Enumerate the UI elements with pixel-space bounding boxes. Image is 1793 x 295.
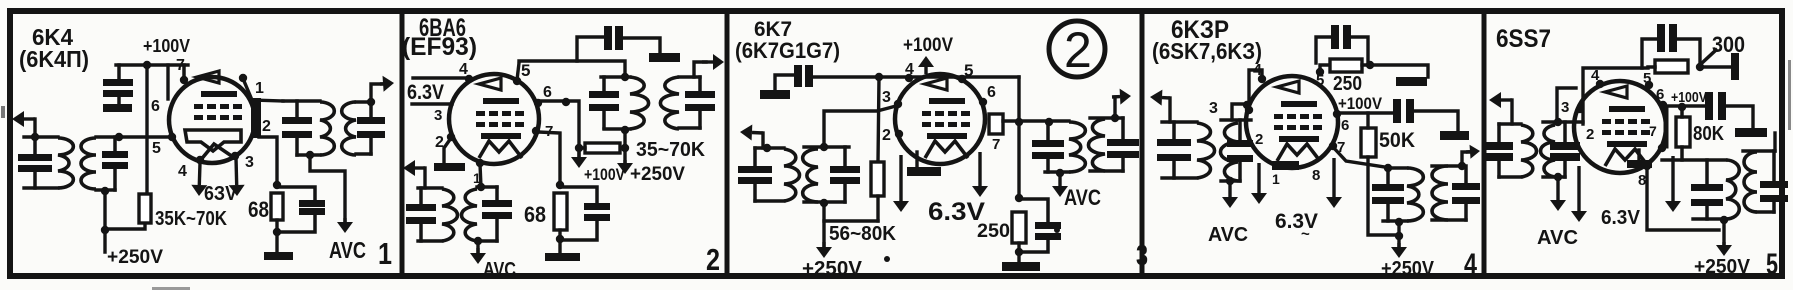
- inductor output primary L17 S5: [1726, 160, 1739, 219]
- svg-text:6ЗV: 6ЗV: [204, 183, 238, 205]
- svg-text:AVC: AVC: [1064, 185, 1101, 210]
- wire C21 stems S4: [1464, 166, 1468, 184]
- wire C28 stems S5: [1497, 124, 1501, 143]
- inductor input secondary L20 S5: [1541, 125, 1555, 177]
- divider panel 1|2: [400, 11, 405, 276]
- wire grid LC top S5: [1543, 120, 1583, 123]
- wire R7 to ground S4: [1362, 65, 1428, 77]
- capacitor output primary C7 S2: [589, 91, 619, 98]
- node bias top S2: [556, 181, 564, 189]
- capacitor input primary C1a S1: [18, 154, 52, 161]
- wire left LC top S1: [24, 135, 58, 138]
- capacitor output secondary C17 S3: [1107, 139, 1139, 146]
- pin 2 plate box S1: [251, 98, 261, 138]
- pin 7 dot S4: [1329, 142, 1337, 150]
- inductor output primary L13 S4: [1407, 168, 1423, 221]
- capacitor grid coupling C12 S3: [794, 65, 802, 87]
- svg-text:50K: 50K: [1379, 129, 1415, 152]
- cathode stem S3: [915, 152, 918, 167]
- svg-text:8: 8: [1638, 172, 1646, 189]
- capacitor input secondary C10 S2: [482, 200, 512, 207]
- pin 4 dot S2: [465, 75, 473, 83]
- capacitor cathode bypass C11 S2: [584, 203, 610, 210]
- node grid LC top S3: [820, 143, 828, 151]
- svg-text:+100V: +100V: [1671, 89, 1707, 106]
- pin 3 dot S5: [1576, 105, 1584, 113]
- svg-text:7: 7: [1649, 123, 1657, 139]
- svg-text:2: 2: [262, 118, 271, 135]
- svg-text:AVC: AVC: [1537, 227, 1578, 249]
- pin 5 dot S2: [513, 77, 521, 85]
- svg-text:(6K7G1G7): (6K7G1G7): [735, 38, 840, 63]
- arrow +250V S3: [822, 242, 825, 247]
- node plate-LC junction S2: [621, 73, 629, 81]
- capacitor input primary C14 S3: [738, 166, 772, 173]
- svg-text:6.3V: 6.3V: [1275, 210, 1318, 233]
- pin 5 dot S5: [1645, 81, 1653, 89]
- wire secondary top S5: [1743, 149, 1775, 152]
- wire C12 to ground S3: [775, 75, 794, 90]
- wire grid LC bottom S2: [477, 239, 497, 242]
- arrow AVC S3: [1058, 174, 1061, 186]
- svg-text:6: 6: [1341, 117, 1349, 134]
- wire C26 stems S5: [1705, 160, 1709, 185]
- svg-text:4: 4: [1464, 248, 1477, 281]
- wire R5 bottom lead S3: [876, 196, 879, 221]
- node pin3 area S4: [1245, 106, 1253, 114]
- arrow AVC S2: [476, 248, 479, 253]
- wire screen rail S3: [812, 75, 1019, 78]
- wire pin6 drop S1: [166, 65, 169, 99]
- inductor input primary L19 S5: [1521, 125, 1537, 177]
- capacitor plate top C24 S5: [1657, 24, 1665, 52]
- divider panel 2|3: [725, 11, 730, 276]
- svg-text:AVC: AVC: [483, 259, 516, 281]
- pin 1 dot S2: [476, 159, 484, 167]
- wire C4 stems S1: [369, 102, 373, 117]
- ground bar under C2 S1: [103, 104, 132, 112]
- svg-text:4: 4: [178, 163, 187, 180]
- node plate-LC junction S3: [1045, 118, 1053, 126]
- wire grid line to pin5 S1: [96, 135, 172, 138]
- heater arrow left S4: [1257, 163, 1260, 193]
- wire to terminal bar S5: [1700, 65, 1731, 68]
- wire secondary riser S5: [1773, 133, 1776, 151]
- wire secondary top S3: [1090, 116, 1123, 119]
- node +250V junction S1: [101, 226, 109, 234]
- svg-text:3: 3: [1136, 240, 1148, 272]
- tube V3 6K7 envelope and electrodes: [895, 74, 985, 164]
- node grid LC top S5: [1554, 118, 1562, 126]
- wire R3 left lead S2: [579, 146, 585, 150]
- svg-text:3: 3: [1209, 100, 1218, 117]
- resistor R10 80K S5: [1676, 117, 1690, 147]
- arrow +250V S4: [1397, 243, 1400, 247]
- wire bypass branch S1: [277, 187, 315, 200]
- wire R8 bottom drop S4: [1368, 157, 1399, 235]
- wire C27 stems S5: [1772, 151, 1776, 182]
- wire input LC bottom S4: [1162, 176, 1197, 179]
- node +100V junction S1: [143, 61, 151, 69]
- pin 7 dot S1: [180, 76, 188, 84]
- capacitor coupling C19 S4: [1393, 99, 1401, 123]
- wire C15 stems S3: [843, 147, 847, 166]
- ground bar bias S2: [545, 253, 580, 261]
- arrow +100V S3: [924, 67, 927, 74]
- wire secondary bottom S2: [679, 126, 700, 129]
- inductor output primary L3 S1: [320, 102, 334, 155]
- wire secondary top S1: [356, 100, 371, 103]
- svg-text:300: 300: [1712, 32, 1745, 57]
- capacitor output primary C20 S4: [1372, 184, 1404, 191]
- speck right edge: [1788, 60, 1791, 130]
- resistor R4 68 S2: [554, 193, 567, 230]
- resistor R6 250 S3: [1012, 212, 1026, 243]
- svg-text:7: 7: [176, 57, 185, 74]
- svg-text:56~80K: 56~80K: [829, 223, 897, 245]
- svg-text:5: 5: [152, 140, 161, 157]
- node AVC tap S3: [1056, 169, 1064, 177]
- pin 1 dot S1: [239, 74, 247, 82]
- wire input LC top S2: [418, 186, 442, 189]
- svg-text:1: 1: [378, 236, 392, 271]
- svg-text:5: 5: [1316, 72, 1324, 89]
- antenna arrow S5: [1501, 98, 1512, 101]
- wire C7 stems S2: [602, 77, 606, 92]
- antenna arrow S4: [1162, 96, 1170, 100]
- node screen rail tap S3: [875, 73, 883, 81]
- arrow AVC S5: [1556, 178, 1559, 200]
- svg-text:4: 4: [459, 61, 468, 78]
- node screen wire S2: [562, 98, 570, 106]
- node R9 right S5: [1696, 63, 1704, 71]
- svg-text:35~70K: 35~70K: [636, 139, 706, 161]
- pin 7 dot S2: [532, 127, 540, 135]
- heater arrow right S4: [1332, 158, 1335, 197]
- svg-text:+100V: +100V: [903, 35, 953, 56]
- ground bar C25 S5: [1735, 128, 1767, 137]
- wire input LC bottom S2: [418, 239, 442, 242]
- pin 5 lead S2: [517, 63, 519, 80]
- wire AVC feed S1: [310, 155, 345, 222]
- pin 3 dot S3: [894, 100, 902, 108]
- divider panel 3|4: [1140, 11, 1145, 276]
- wire to next stage arrow S2: [694, 62, 706, 77]
- wire input LC top S4: [1162, 120, 1197, 123]
- wire output LC top S4: [1388, 166, 1407, 169]
- pin 6 dot S4: [1333, 110, 1341, 118]
- capacitor output secondary C4 S1: [357, 117, 385, 124]
- inductor output secondary L4 S1: [342, 102, 356, 155]
- wire C1a stems S1: [33, 137, 37, 155]
- pin 4 dot S3: [905, 74, 913, 82]
- node grid cap tap S1: [115, 133, 123, 141]
- wire cathode to bias network S1: [259, 137, 277, 185]
- capacitor output primary C3 S1: [282, 117, 312, 124]
- arrow AVC S4: [1228, 182, 1231, 197]
- wire +100V rail S1: [116, 63, 188, 66]
- wire secondary top S2: [679, 75, 700, 78]
- ground bar cathode S3: [907, 167, 941, 176]
- speck mark left edge: [1, 106, 5, 118]
- svg-text:+100V: +100V: [1338, 94, 1383, 113]
- svg-text:6.3V: 6.3V: [1601, 207, 1641, 229]
- svg-text:8: 8: [1312, 167, 1320, 184]
- capacitor input secondary C23 S4: [1227, 140, 1253, 147]
- inductor output secondary L14 S4: [1432, 166, 1448, 220]
- wire C18 left lead S4: [1316, 37, 1331, 63]
- wire C24 right lead S5: [1677, 39, 1700, 62]
- inductor input primary L1 S1: [58, 138, 73, 188]
- svg-text:68: 68: [248, 197, 269, 222]
- wire pin7 lead S5: [1664, 107, 1669, 146]
- svg-text:250: 250: [1333, 73, 1362, 95]
- node +250V tap S1: [101, 187, 109, 195]
- pin 6 dot S3: [979, 98, 987, 106]
- wire R8 top lead S4: [1366, 113, 1369, 128]
- wire top cap branch S2: [577, 37, 603, 61]
- figure number circle 2: [1049, 21, 1105, 77]
- wire C6 to ground S2: [621, 38, 660, 53]
- svg-text:+100V: +100V: [584, 165, 626, 184]
- node plate return S4: [1395, 232, 1403, 240]
- wire left LC bottom S1: [24, 186, 58, 189]
- svg-text:1: 1: [1272, 171, 1280, 187]
- svg-text:68: 68: [524, 202, 546, 227]
- svg-text:6: 6: [151, 98, 160, 115]
- wire screen resistor drop S3: [878, 77, 879, 162]
- svg-text:(EF93): (EF93): [402, 33, 477, 61]
- node crossing dot S3: [1015, 118, 1023, 126]
- wire aux jog S5: [1557, 88, 1576, 124]
- node input top S3: [763, 144, 771, 152]
- pin 4 dot S1: [196, 156, 204, 164]
- node +250V tap S3: [820, 199, 828, 207]
- speck mark S3b: [1054, 227, 1060, 233]
- svg-text:(6K4П): (6K4П): [19, 46, 89, 72]
- capacitor coupling C25 S5: [1705, 92, 1713, 120]
- resistor R3 35-70K S2: [585, 143, 620, 153]
- pin 2 dot S2: [447, 133, 455, 141]
- capacitor input primary C22 S4: [1157, 139, 1191, 146]
- wire bias to ground S1: [275, 220, 278, 252]
- svg-text:3: 3: [434, 107, 442, 124]
- node AVC tap S2: [474, 237, 482, 245]
- divider panel 4|5: [1482, 11, 1487, 276]
- wire output LC bottom S3: [1045, 170, 1069, 173]
- wire C20 stems S4: [1386, 168, 1390, 185]
- svg-text:~: ~: [1301, 226, 1310, 243]
- pin 5 dot S3: [958, 75, 966, 83]
- resistor R2 68 S1: [271, 193, 283, 220]
- svg-text:+250V: +250V: [630, 164, 685, 185]
- node 250 bottom S3: [1015, 248, 1023, 256]
- capacitor input primary C9 S2: [406, 204, 436, 211]
- wire +250V drop S5: [1722, 220, 1725, 246]
- capacitor output primary C16 S3: [1032, 140, 1064, 147]
- wire output LC bottom S4: [1383, 219, 1407, 222]
- heater arrow right S5: [1671, 156, 1674, 201]
- inductor output secondary L6 S2: [660, 77, 679, 129]
- wire grid LC top S3: [804, 145, 849, 148]
- capacitor output secondary C21 S4: [1452, 183, 1480, 190]
- node AVC takeoff S1: [306, 151, 314, 159]
- pin 7 dot S5: [1658, 144, 1666, 152]
- inductor input primary L15 S4: [1197, 123, 1215, 178]
- wire R10 leads S5: [1680, 107, 1684, 117]
- svg-text:6: 6: [1656, 86, 1664, 103]
- wire to next stage with arrow S1: [371, 84, 385, 102]
- inductor output primary L11 S3: [1069, 122, 1085, 172]
- svg-text:3: 3: [882, 89, 891, 106]
- wire plate to LC S4: [1333, 147, 1385, 167]
- ground bar C6 S2: [649, 53, 680, 62]
- ground bar pin2 S2: [434, 163, 465, 171]
- wire secondary bottom S5: [1757, 210, 1774, 213]
- wire pin5 rail S4: [1320, 65, 1330, 70]
- wire plate to output transformer S1: [244, 81, 283, 101]
- svg-text:5: 5: [521, 61, 530, 80]
- svg-text:2: 2: [1255, 131, 1263, 148]
- svg-text:7: 7: [992, 136, 1000, 153]
- svg-text:4: 4: [1253, 62, 1262, 79]
- node bias bottom S2: [556, 235, 564, 243]
- svg-text:+250V: +250V: [1381, 258, 1435, 280]
- wire C8 stems S2: [698, 77, 702, 92]
- capacitor screen top C18 S4: [1331, 25, 1339, 49]
- ground bar bias S1: [264, 252, 293, 260]
- antenna arrow S2: [415, 166, 425, 169]
- wire grid LC top S2: [477, 185, 497, 188]
- pin 5 dot S4: [1316, 68, 1324, 76]
- node secondary top S4: [1458, 162, 1466, 170]
- wire screen-to-250 drop S3: [1017, 77, 1020, 198]
- tube V5 6SS7 envelope and electrodes: [1574, 81, 1666, 173]
- wire resistor bottom link S1: [105, 222, 145, 229]
- svg-text:5: 5: [1643, 70, 1651, 87]
- node bias bottom S1: [273, 228, 281, 236]
- arrow +250V S5: [1722, 242, 1725, 245]
- wire input LC top S3: [755, 146, 784, 149]
- heater lead left with arrow S1: [198, 163, 202, 185]
- tube V4 6SK7 envelope and electrodes: [1246, 76, 1338, 168]
- wire +250V drop S3: [822, 202, 825, 247]
- wire +250V drop S2: [623, 130, 626, 165]
- wire pin8 return S5: [1647, 166, 1719, 230]
- svg-text:5: 5: [1766, 248, 1778, 281]
- capacitor screen bypass C2 S1: [117, 65, 121, 79]
- node secondary top S3: [1111, 114, 1119, 122]
- wire output LC top S1: [283, 99, 320, 102]
- wire next stage arrow S3: [1113, 97, 1116, 118]
- wire secondary bottom S1: [356, 152, 371, 155]
- capacitor input secondary C1b S1: [102, 151, 128, 158]
- wire plate line S3: [1003, 119, 1069, 122]
- wire C2 to ground S1: [117, 95, 121, 105]
- capacitor output primary C26 S5: [1691, 184, 1723, 191]
- cathode stem and bar S5: [1637, 150, 1640, 160]
- svg-text:35K~70K: 35K~70K: [155, 208, 227, 230]
- wire C18 right lead S4: [1351, 37, 1368, 62]
- wire input LC top S5: [1499, 122, 1521, 125]
- wire +250V riser S1: [103, 190, 106, 252]
- wire input LC bottom S5: [1499, 175, 1521, 178]
- cathode bar S4: [1272, 161, 1299, 170]
- inductor input secondary L10 S3: [803, 149, 818, 202]
- pin 7 lead S1: [182, 65, 186, 80]
- node plate return S2: [621, 126, 629, 134]
- pin 4 dot S5: [1596, 80, 1604, 88]
- wire pin6 coupling S4: [1337, 111, 1394, 114]
- inductor input secondary L8 S2: [461, 189, 477, 241]
- leader line 300 S5: [1703, 50, 1716, 62]
- svg-text:3: 3: [245, 154, 254, 171]
- pin 3 dot S4: [1243, 101, 1251, 109]
- wire C25 to ground S5: [1727, 106, 1753, 128]
- wire heater pin4 S2: [413, 76, 466, 79]
- resistor R9 300 S5: [1655, 60, 1688, 73]
- antenna arrow S3: [752, 131, 763, 135]
- inductor input primary L7 S2: [442, 189, 458, 241]
- pin 6 dot S2: [534, 99, 542, 107]
- wire AVC drop S2: [476, 241, 479, 252]
- wire grid LC bottom S5: [1543, 175, 1565, 178]
- node resistor right S2: [621, 144, 629, 152]
- resistor R1 35K-70K S1: [139, 194, 151, 223]
- heater lead right with arrow S1: [234, 158, 238, 185]
- svg-text:6.3V: 6.3V: [407, 81, 444, 104]
- wire pin2 to ground S2: [444, 138, 451, 162]
- wire output LC top S2: [601, 75, 630, 78]
- wire next stage S4: [1462, 152, 1470, 166]
- wire grid LC bottom S4: [1221, 179, 1240, 182]
- node 250 top S3: [1015, 194, 1023, 202]
- svg-text:4: 4: [1591, 67, 1600, 84]
- svg-text:6: 6: [987, 84, 996, 101]
- wire plate run S2: [519, 61, 625, 77]
- node grid LC S2: [477, 183, 485, 191]
- speck mark S3: [884, 256, 890, 262]
- wire C3 stems S1: [295, 101, 299, 118]
- inductor output primary L5 S2: [630, 77, 649, 129]
- wire screen feed down S1: [145, 65, 148, 194]
- wire secondary top S4: [1432, 164, 1462, 167]
- svg-text:+250V: +250V: [107, 247, 163, 268]
- resistor R7 250 S4: [1330, 59, 1362, 72]
- pin 4 dot S4: [1258, 75, 1266, 83]
- wire output LC top S5: [1662, 158, 1726, 161]
- arrow AVC down S1: [343, 218, 346, 222]
- wire bypass branch S2: [560, 187, 597, 203]
- resistor R8 50K S4: [1361, 128, 1376, 157]
- wire output LC bottom S1: [297, 153, 320, 156]
- svg-text:2: 2: [1064, 22, 1092, 78]
- pin 8 dot S5: [1643, 162, 1651, 170]
- antenna input arrow S1: [24, 117, 35, 120]
- pin 3 dot S1: [231, 152, 239, 160]
- wire 250 ground stem S3: [1017, 243, 1020, 262]
- heater arrow left S3: [899, 155, 902, 201]
- capacitor cathode bypass C5 S1: [299, 200, 325, 207]
- svg-text:2: 2: [1586, 126, 1594, 143]
- wire right LC bottom S1: [96, 188, 115, 191]
- capacitor output secondary C27 S5: [1760, 181, 1788, 188]
- wire grid line S3: [824, 106, 896, 147]
- svg-text:2: 2: [706, 242, 720, 277]
- node AVC tap S4: [1226, 177, 1234, 185]
- wire pin1 to grid LC S2: [480, 164, 481, 187]
- capacitor output secondary C8 S2: [685, 91, 715, 98]
